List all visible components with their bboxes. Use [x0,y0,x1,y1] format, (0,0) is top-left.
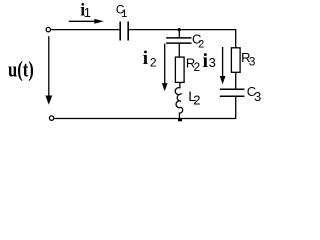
svg-text:1: 1 [121,8,127,20]
label C1 [116,2,128,20]
wire top-right corner down to R3 [235,29,237,48]
capacitor C2 [166,38,191,43]
wire top horizontal right segment [129,29,236,31]
current arrow i2 [162,44,168,92]
resistor R3 [231,48,240,73]
current arrow i1 [69,19,104,24]
label i1 [80,0,91,20]
source arrow u(t) [45,36,52,105]
inductor L2 [175,82,183,118]
svg-text:2: 2 [193,92,200,107]
svg-text:2: 2 [198,39,204,51]
current arrow i3 [220,47,226,84]
capacitor C1 [120,22,128,41]
label R2 [186,55,201,74]
label C3 [247,84,261,104]
wire C2 to R2 [178,44,180,57]
svg-text:i: i [143,48,148,69]
node junction bottom [178,119,182,122]
svg-text:3: 3 [254,89,261,104]
svg-text:1: 1 [84,5,91,20]
label L2 [188,88,200,107]
node junction top (C2 branch) [178,28,181,31]
label C2 [192,32,204,51]
wire junction to C2 [178,30,180,38]
label i3 [203,50,216,72]
svg-text:3: 3 [249,54,256,68]
svg-text:u(t): u(t) [8,56,34,81]
svg-text:i: i [203,50,209,72]
wire C3 down and bottom wire [54,97,236,119]
wire R3 to C3 [235,72,237,88]
capacitor C3 [220,89,245,96]
wire top horizontal left segment [51,29,120,31]
label R3 [241,50,256,68]
svg-text:3: 3 [209,55,216,70]
terminal node top-left [46,27,50,31]
label i2 [143,48,157,69]
terminal node bottom-left [49,116,53,120]
svg-text:2: 2 [194,60,201,74]
svg-text:2: 2 [150,55,157,69]
resistor R2 [175,57,184,82]
